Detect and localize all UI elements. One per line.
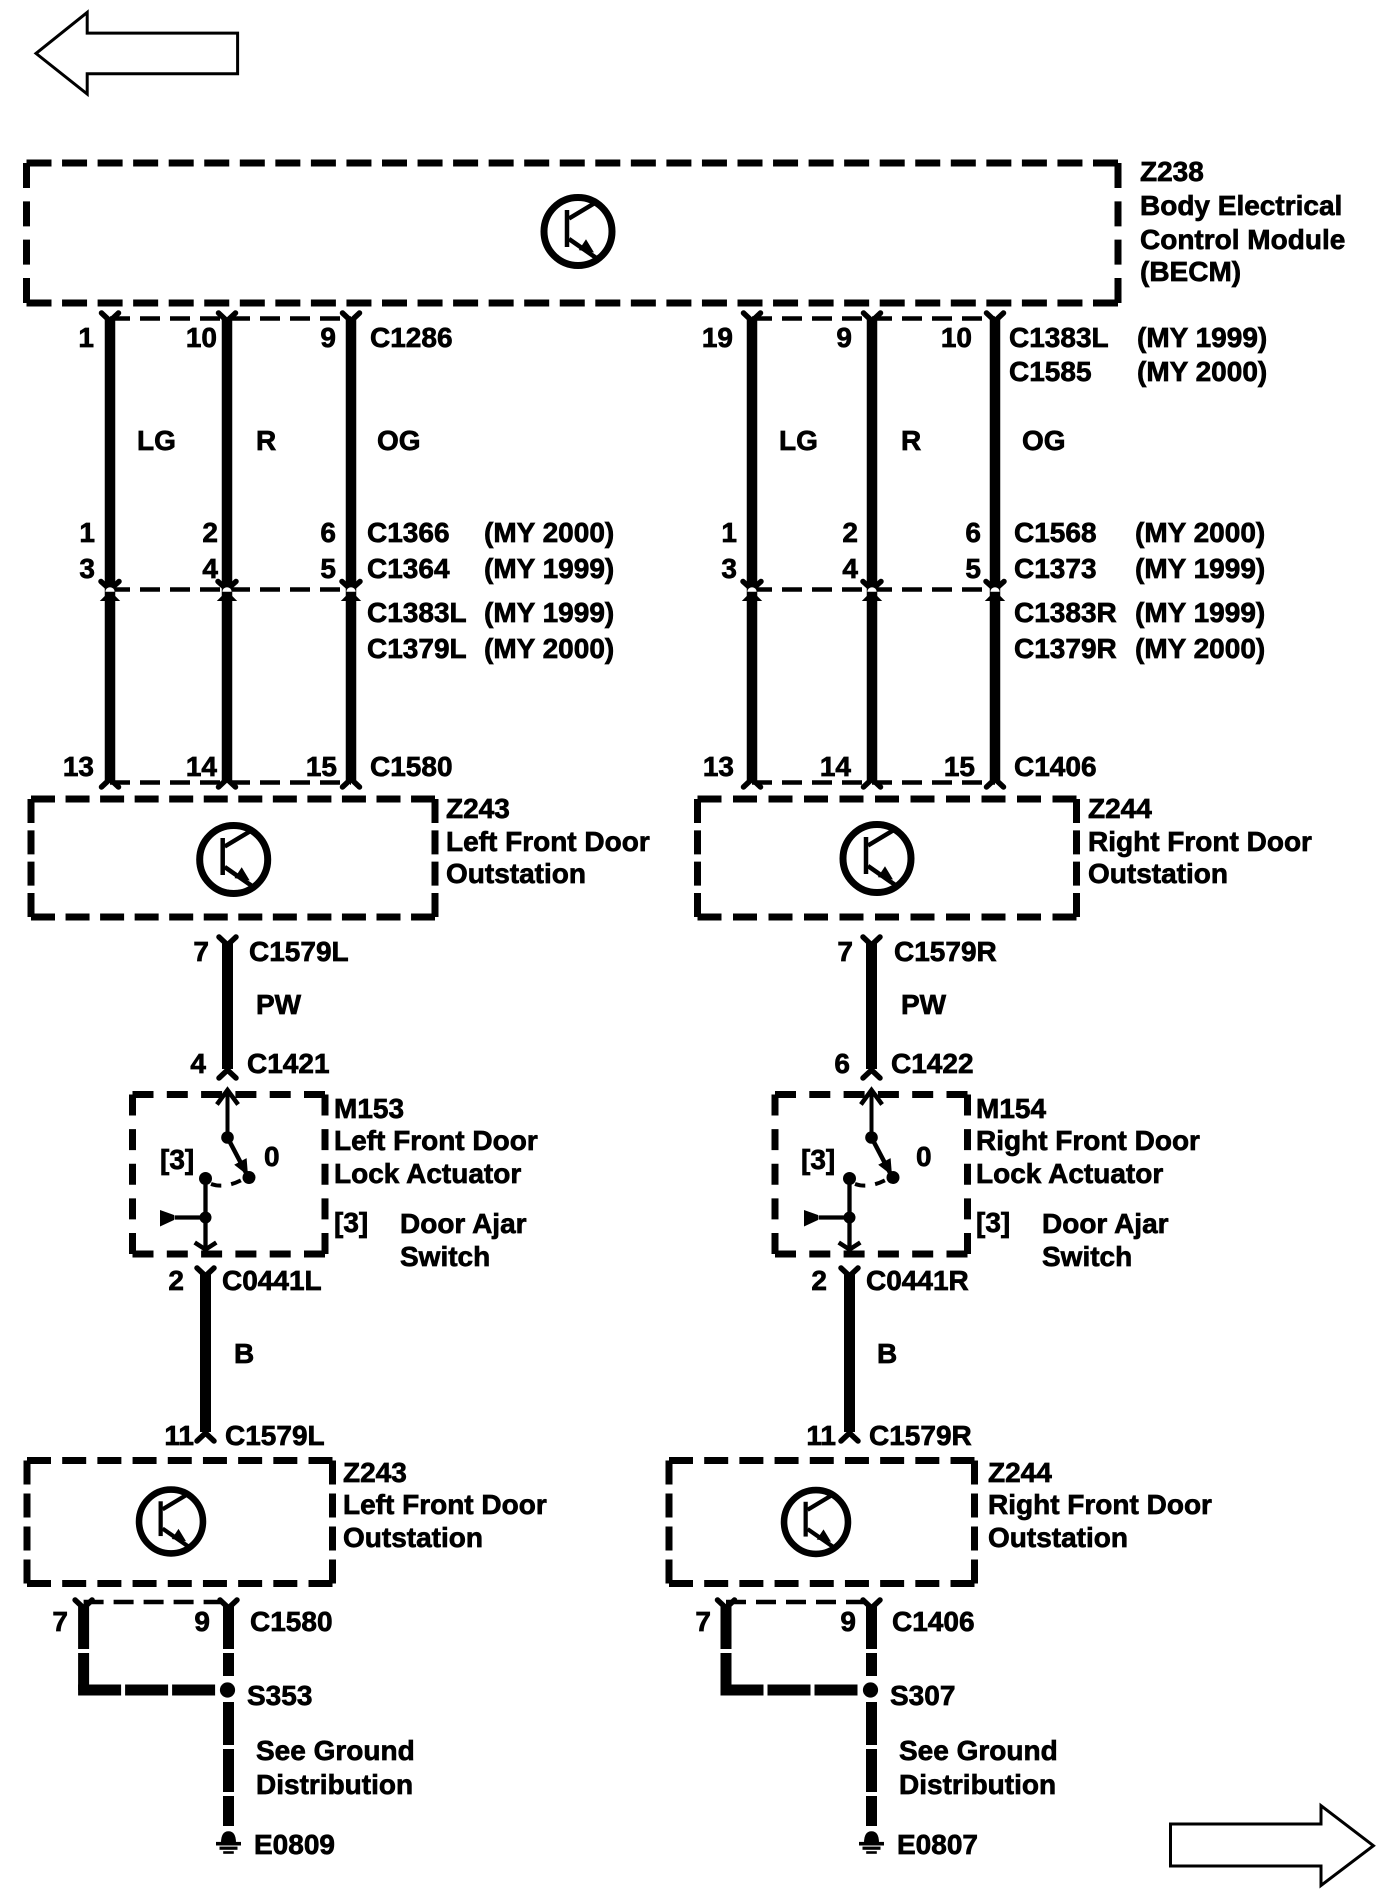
svg-text:S353: S353 [247, 1680, 312, 1711]
svg-text:Right Front Door: Right Front Door [976, 1125, 1200, 1156]
svg-text:0: 0 [264, 1141, 280, 1172]
svg-text:Distribution: Distribution [256, 1769, 413, 1800]
svg-text:19: 19 [702, 322, 733, 353]
svg-text:2: 2 [811, 1265, 827, 1296]
svg-text:Door Ajar: Door Ajar [1042, 1208, 1169, 1239]
svg-text:C1579L: C1579L [225, 1420, 325, 1451]
svg-text:10: 10 [941, 322, 972, 353]
svg-text:R: R [256, 425, 276, 456]
svg-text:PW: PW [256, 989, 302, 1020]
svg-text:2: 2 [842, 517, 858, 548]
svg-text:(MY 1999): (MY 1999) [484, 553, 614, 584]
svg-text:2: 2 [202, 517, 218, 548]
svg-text:13: 13 [703, 751, 734, 782]
svg-text:C1379R: C1379R [1014, 633, 1117, 664]
svg-text:Right Front Door: Right Front Door [1088, 826, 1312, 857]
svg-text:C1422: C1422 [891, 1048, 974, 1079]
svg-text:C1579R: C1579R [869, 1420, 972, 1451]
svg-text:7: 7 [695, 1606, 711, 1637]
svg-text:[3]: [3] [160, 1144, 194, 1175]
svg-text:LG: LG [137, 425, 176, 456]
svg-text:E0809: E0809 [254, 1829, 335, 1860]
svg-text:5: 5 [320, 553, 336, 584]
svg-text:LG: LG [779, 425, 818, 456]
svg-text:S307: S307 [890, 1680, 955, 1711]
svg-text:9: 9 [836, 322, 852, 353]
svg-text:C1406: C1406 [1014, 751, 1097, 782]
svg-text:3: 3 [79, 553, 95, 584]
svg-text:11: 11 [164, 1420, 194, 1451]
svg-text:(MY 2000): (MY 2000) [1135, 633, 1265, 664]
svg-text:(MY 1999): (MY 1999) [1137, 322, 1267, 353]
svg-text:4: 4 [842, 553, 858, 584]
svg-text:(BECM): (BECM) [1140, 256, 1241, 287]
svg-text:C1383R: C1383R [1014, 597, 1117, 628]
svg-text:7: 7 [193, 936, 209, 967]
svg-text:R: R [901, 425, 921, 456]
svg-text:6: 6 [965, 517, 981, 548]
svg-text:B: B [877, 1338, 897, 1369]
svg-text:Control Module: Control Module [1140, 224, 1345, 255]
svg-text:C1383L: C1383L [1009, 322, 1109, 353]
svg-text:11: 11 [806, 1420, 836, 1451]
svg-text:B: B [234, 1338, 254, 1369]
svg-text:Lock Actuator: Lock Actuator [334, 1158, 521, 1189]
svg-text:C1286: C1286 [370, 322, 453, 353]
svg-text:Left Front Door: Left Front Door [334, 1125, 538, 1156]
svg-text:C1373: C1373 [1014, 553, 1097, 584]
svg-text:Outstation: Outstation [1088, 858, 1228, 889]
svg-text:Z244: Z244 [988, 1457, 1052, 1488]
svg-text:Outstation: Outstation [988, 1522, 1128, 1553]
svg-text:(MY 1999): (MY 1999) [1135, 553, 1265, 584]
svg-text:[3]: [3] [976, 1207, 1010, 1238]
svg-text:9: 9 [320, 322, 336, 353]
svg-text:9: 9 [194, 1606, 210, 1637]
svg-text:C1579R: C1579R [894, 936, 997, 967]
svg-text:7: 7 [837, 936, 853, 967]
svg-text:Outstation: Outstation [446, 858, 586, 889]
svg-text:Right Front Door: Right Front Door [988, 1489, 1212, 1520]
svg-text:15: 15 [306, 751, 337, 782]
svg-text:13: 13 [63, 751, 94, 782]
svg-text:E0807: E0807 [897, 1829, 978, 1860]
svg-text:4: 4 [202, 553, 218, 584]
svg-text:10: 10 [186, 322, 217, 353]
svg-text:See Ground: See Ground [256, 1735, 415, 1766]
svg-text:C1580: C1580 [250, 1606, 333, 1637]
svg-text:6: 6 [320, 517, 336, 548]
svg-text:C1585: C1585 [1009, 356, 1092, 387]
svg-text:Switch: Switch [400, 1241, 490, 1272]
svg-text:C0441R: C0441R [866, 1265, 969, 1296]
svg-text:C0441L: C0441L [222, 1265, 322, 1296]
svg-text:(MY 1999): (MY 1999) [484, 597, 614, 628]
svg-text:3: 3 [721, 553, 737, 584]
svg-text:Z238: Z238 [1140, 156, 1204, 187]
svg-text:(MY 2000): (MY 2000) [1135, 517, 1265, 548]
svg-text:C1421: C1421 [247, 1048, 330, 1079]
svg-text:Left Front Door: Left Front Door [446, 826, 650, 857]
svg-text:PW: PW [901, 989, 947, 1020]
svg-text:Outstation: Outstation [343, 1522, 483, 1553]
svg-text:[3]: [3] [801, 1144, 835, 1175]
svg-text:M153: M153 [334, 1093, 404, 1124]
svg-text:0: 0 [916, 1141, 932, 1172]
svg-text:1: 1 [79, 517, 95, 548]
svg-text:Switch: Switch [1042, 1241, 1132, 1272]
svg-text:Left Front Door: Left Front Door [343, 1489, 547, 1520]
svg-text:C1383L: C1383L [367, 597, 467, 628]
svg-text:OG: OG [377, 425, 421, 456]
svg-text:C1364: C1364 [367, 553, 450, 584]
svg-text:C1568: C1568 [1014, 517, 1097, 548]
svg-text:9: 9 [840, 1606, 856, 1637]
svg-text:Body Electrical: Body Electrical [1140, 190, 1342, 221]
svg-text:14: 14 [186, 751, 218, 782]
svg-text:(MY 1999): (MY 1999) [1135, 597, 1265, 628]
svg-text:C1580: C1580 [370, 751, 453, 782]
svg-text:C1406: C1406 [892, 1606, 975, 1637]
svg-text:Distribution: Distribution [899, 1769, 1056, 1800]
svg-text:(MY 2000): (MY 2000) [1137, 356, 1267, 387]
svg-text:[3]: [3] [334, 1207, 368, 1238]
svg-text:1: 1 [78, 322, 94, 353]
svg-text:15: 15 [944, 751, 975, 782]
svg-text:(MY 2000): (MY 2000) [484, 517, 614, 548]
svg-text:Lock Actuator: Lock Actuator [976, 1158, 1163, 1189]
svg-text:Z243: Z243 [446, 793, 510, 824]
svg-text:OG: OG [1022, 425, 1066, 456]
svg-text:Door Ajar: Door Ajar [400, 1208, 527, 1239]
svg-text:Z243: Z243 [343, 1457, 407, 1488]
svg-text:2: 2 [168, 1265, 184, 1296]
svg-text:1: 1 [721, 517, 737, 548]
svg-text:See Ground: See Ground [899, 1735, 1058, 1766]
svg-text:(MY 2000): (MY 2000) [484, 633, 614, 664]
svg-text:6: 6 [834, 1048, 850, 1079]
svg-text:Z244: Z244 [1088, 793, 1152, 824]
svg-text:5: 5 [965, 553, 981, 584]
svg-text:M154: M154 [976, 1093, 1046, 1124]
svg-text:4: 4 [190, 1048, 206, 1079]
svg-text:7: 7 [52, 1606, 68, 1637]
svg-text:C1579L: C1579L [249, 936, 349, 967]
svg-text:14: 14 [820, 751, 852, 782]
svg-text:C1366: C1366 [367, 517, 450, 548]
svg-text:C1379L: C1379L [367, 633, 467, 664]
